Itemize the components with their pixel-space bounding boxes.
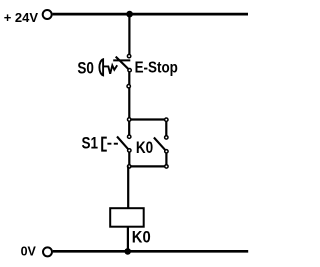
svg-text:S1: S1 <box>82 134 99 153</box>
svg-text:+ 24V: + 24V <box>4 10 39 25</box>
svg-text:E-Stop: E-Stop <box>135 59 178 76</box>
svg-text:K0: K0 <box>136 139 153 158</box>
svg-text:0V: 0V <box>21 245 37 259</box>
svg-text:K0: K0 <box>132 229 151 247</box>
svg-text:S0: S0 <box>77 59 94 78</box>
